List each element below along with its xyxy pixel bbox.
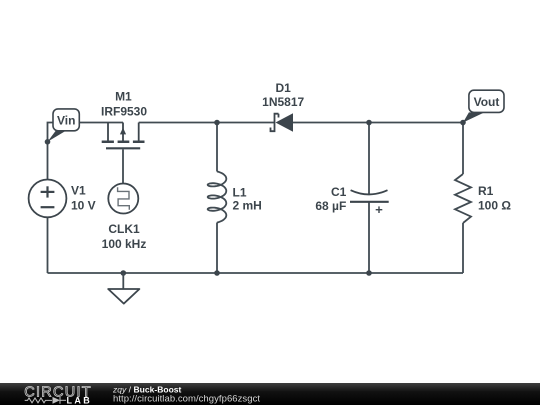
- wire R1 column top: [462, 123, 464, 175]
- wire M1 drain to node A: [139, 122, 217, 124]
- svg-text:2 mH: 2 mH: [233, 199, 262, 213]
- clock source CLK1: [108, 184, 138, 214]
- wire L1 column top: [216, 123, 218, 172]
- node L1 bottom: [214, 270, 220, 276]
- voltage source V1: [29, 180, 67, 218]
- node C1 bottom: [366, 270, 372, 276]
- resistor R1: [455, 174, 471, 223]
- svg-text:Vin: Vin: [57, 114, 75, 128]
- wire C1 column bottom: [368, 202, 370, 273]
- svg-text:LAB: LAB: [67, 395, 93, 405]
- svg-text:L1: L1: [233, 185, 247, 199]
- svg-text:D1: D1: [276, 81, 292, 95]
- node flag anchor Vout: [460, 120, 466, 126]
- wire R1 column bottom: [462, 223, 464, 273]
- svg-text:68 µF: 68 µF: [315, 199, 346, 213]
- inductor L1: [208, 172, 227, 223]
- svg-text:Vout: Vout: [474, 95, 500, 109]
- wire top rail left segment (Vin to M1 source): [48, 123, 124, 180]
- svg-text:100 kHz: 100 kHz: [102, 237, 147, 251]
- svg-text:CLK1: CLK1: [108, 222, 140, 236]
- wire L1 column bottom: [216, 223, 218, 274]
- svg-text:V1: V1: [71, 184, 86, 198]
- ground: [108, 270, 139, 303]
- svg-text:10 V: 10 V: [71, 198, 96, 212]
- svg-text:100 Ω: 100 Ω: [478, 199, 511, 213]
- net flag Vin: [48, 109, 80, 142]
- svg-text:R1: R1: [478, 184, 494, 198]
- transistor M1 (PMOS IRF9530): [102, 123, 145, 149]
- svg-text:IRF9530: IRF9530: [101, 104, 147, 118]
- svg-text:http://circuitlab.com/chgyfp66: http://circuitlab.com/chgyfp66zsgct: [113, 393, 260, 404]
- wire D1 anode to node B: [293, 122, 369, 124]
- svg-text:1N5817: 1N5817: [262, 95, 304, 109]
- svg-text:M1: M1: [115, 90, 132, 104]
- diode D1 (Schottky 1N5817): [271, 113, 294, 132]
- capacitor C1 (polarized 68uF): [350, 190, 389, 213]
- node B (output node): [366, 120, 372, 126]
- wire node B to Vout corner: [369, 122, 463, 124]
- node flag anchor Vin: [45, 139, 51, 145]
- CircuitLab logo squiggle: [25, 397, 66, 404]
- svg-text:C1: C1: [331, 185, 347, 199]
- wire CLK1 gate drop: [122, 149, 124, 183]
- wire node A to D1 cathode: [217, 122, 275, 124]
- wire V1 bottom to ground rail: [47, 217, 49, 273]
- wire bottom rail: [48, 272, 464, 274]
- net flag Vout: [463, 90, 504, 122]
- node A (switch node, top of L1): [214, 120, 220, 126]
- wire C1 column top: [368, 123, 370, 194]
